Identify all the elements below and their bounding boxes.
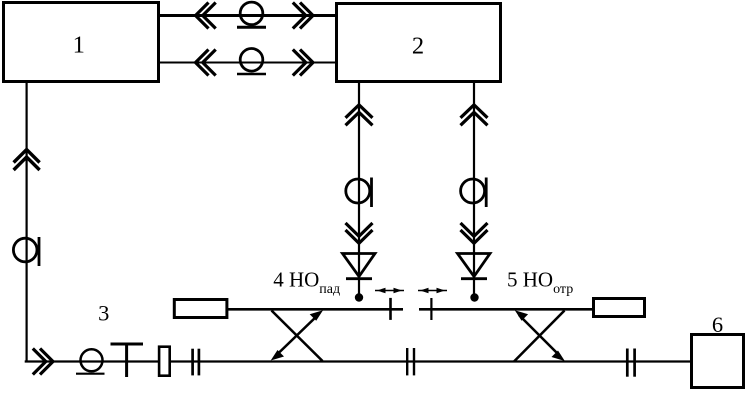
svg-text:2: 2 bbox=[412, 33, 424, 60]
svg-text:6: 6 bbox=[712, 312, 723, 337]
svg-text:3: 3 bbox=[98, 301, 109, 326]
svg-text:1: 1 bbox=[73, 32, 85, 59]
